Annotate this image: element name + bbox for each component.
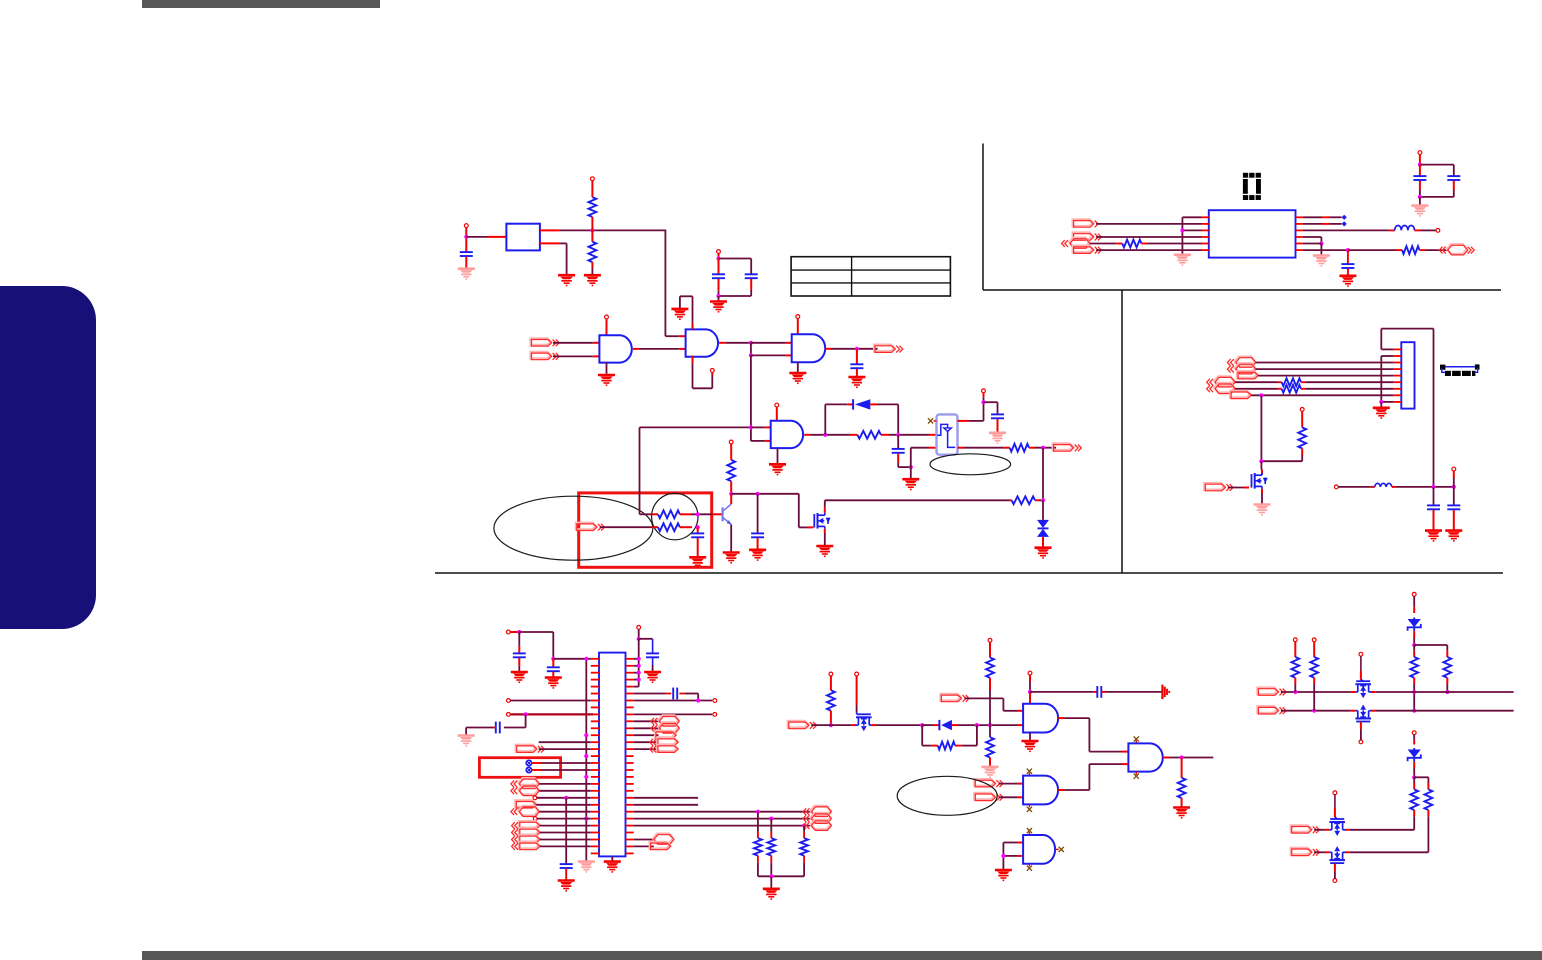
mosfet M7 (1325, 817, 1350, 836)
wire (1101, 691, 1161, 693)
ground (analog) (578, 862, 595, 872)
wire (770, 876, 772, 889)
wire (1334, 863, 1336, 878)
pin P3 (717, 250, 721, 254)
ellipse annotation (897, 776, 997, 815)
port OUT1 (874, 345, 903, 353)
wire (797, 362, 799, 373)
ground (545, 678, 562, 688)
wire (634, 818, 812, 820)
node junction (769, 874, 773, 878)
node junction (464, 235, 468, 239)
ground (763, 889, 780, 899)
ground (749, 550, 766, 560)
resistor R23 (1282, 378, 1301, 386)
port GRP1 tag (655, 731, 676, 739)
connector J1 pins (1393, 349, 1401, 402)
ground (1445, 531, 1462, 541)
node junction (637, 678, 641, 682)
wire (718, 279, 720, 296)
and-gate U4B (686, 329, 718, 356)
power rail wire (634, 639, 639, 687)
wire (983, 393, 985, 398)
wire (825, 404, 847, 434)
ground (644, 672, 661, 682)
ground rail (1182, 217, 1201, 255)
wire (665, 230, 685, 337)
no-connect X mark (1027, 864, 1032, 871)
tvs diode Z3 (1037, 500, 1049, 547)
port IN2 (531, 352, 560, 360)
wire (1035, 499, 1043, 501)
port hexpin (1207, 376, 1235, 387)
node junction (1041, 446, 1045, 450)
node junction (1379, 400, 1383, 404)
wire (1256, 362, 1394, 364)
node junction (749, 341, 753, 345)
wire (758, 875, 804, 877)
port GRP2 hexpin (803, 813, 831, 824)
pin P22 (1293, 638, 1297, 642)
capacitor C11 (639, 639, 659, 672)
node junction (769, 817, 773, 821)
wire (1029, 675, 1031, 692)
wire (591, 217, 593, 231)
capacitor C17 (1447, 487, 1460, 531)
ground (analog) (982, 767, 999, 777)
node junction (909, 465, 913, 469)
and-gate U7B (1128, 743, 1162, 771)
pin P16 (507, 699, 511, 703)
wire (999, 796, 1023, 798)
resistor R2 (589, 242, 597, 262)
port hexpin (1062, 238, 1090, 249)
node junction (829, 723, 833, 727)
ground (1035, 548, 1052, 558)
wire (1058, 764, 1128, 790)
wire (1419, 249, 1447, 251)
no-connect X mark (1055, 847, 1064, 852)
wire (1301, 388, 1393, 390)
port tag (516, 801, 537, 809)
resistor R20 (1310, 642, 1318, 711)
wire (1260, 461, 1263, 474)
ground (558, 275, 575, 285)
capacitor C8 (691, 527, 704, 557)
node junction (981, 400, 985, 404)
ground (558, 881, 575, 891)
wire (532, 769, 591, 771)
pin P11 (713, 699, 717, 703)
wire (952, 724, 1023, 726)
section border horizontal under middle blocks (435, 572, 1503, 574)
no-connect X mark (1134, 736, 1139, 743)
mosfet M3 (851, 712, 876, 731)
port tag (650, 842, 671, 850)
section border vertical left of top-right block (982, 144, 984, 291)
node junction (637, 664, 641, 668)
wire (640, 427, 653, 514)
transistor Q1 (723, 504, 732, 524)
pin P25 (1359, 740, 1363, 744)
IC U6 right pins (626, 659, 634, 854)
wire (1380, 402, 1382, 408)
node junction (896, 433, 900, 437)
port tag (512, 842, 540, 850)
wire (825, 500, 1009, 513)
node junction (1346, 248, 1350, 252)
wire (540, 832, 591, 834)
capacitor C19 (1413, 165, 1426, 180)
wire (519, 632, 553, 659)
wire (910, 467, 912, 479)
no-connect X mark (928, 418, 937, 423)
wire (537, 797, 591, 799)
pin P30 (open) (1334, 485, 1338, 489)
wire (1376, 710, 1514, 712)
port hexpin (511, 778, 539, 789)
node junction (637, 637, 641, 641)
bus wire long vertical (1433, 329, 1435, 487)
wire (536, 804, 590, 806)
pin P10 (637, 626, 641, 630)
wire (1350, 851, 1429, 853)
ground (848, 377, 865, 387)
wire (922, 724, 939, 726)
port IN10 (1258, 706, 1287, 714)
pin P7 (982, 389, 986, 393)
wire (1420, 165, 1454, 176)
resistor R15 (986, 737, 994, 757)
node junction (1312, 709, 1316, 713)
node junction (1412, 709, 1416, 713)
node junction (1418, 195, 1422, 199)
port IN16 (1073, 246, 1102, 254)
pin P13 (533, 796, 537, 800)
wire (876, 724, 922, 726)
wire (824, 529, 826, 546)
pin P29 (1300, 408, 1304, 412)
capacitor C2 (712, 274, 725, 278)
wire (532, 762, 591, 764)
pin P24 (1359, 652, 1363, 656)
port hexpin (511, 806, 539, 817)
resistor R25 (1298, 428, 1306, 449)
node junction (823, 433, 827, 437)
port IN3 (576, 523, 605, 531)
capacitor C5 (892, 435, 911, 467)
capacitor C20 (1447, 176, 1460, 197)
port tag (512, 828, 540, 836)
node junction (1001, 854, 1005, 858)
ground (710, 302, 727, 312)
ground (511, 672, 528, 682)
wire (881, 434, 937, 436)
ground (584, 275, 601, 285)
wire (600, 526, 658, 528)
ground (analog) (1254, 505, 1271, 515)
wire (1303, 249, 1348, 251)
capacitor C18 (1341, 250, 1354, 276)
ground (671, 309, 688, 319)
wire (1003, 842, 1023, 844)
wire (1453, 471, 1455, 487)
wire (652, 513, 658, 515)
capacitor C4 (850, 349, 863, 377)
wire (634, 811, 812, 813)
wire (1002, 843, 1004, 871)
node junction (1445, 690, 1449, 694)
zener Z1 (1408, 596, 1421, 645)
bus entry diamond (1342, 215, 1347, 220)
footer bar (142, 951, 1542, 960)
wire (1334, 795, 1336, 818)
wire (1003, 855, 1023, 857)
wire (540, 845, 591, 847)
jumper JP1 (526, 760, 532, 766)
resistor R17 (1443, 657, 1451, 678)
power rail wire (585, 659, 587, 862)
node junction (551, 657, 555, 661)
port GRP2 hexpin (803, 820, 831, 831)
node junction (1431, 485, 1435, 489)
ground (902, 479, 919, 489)
resistor R8 (1012, 496, 1036, 504)
wire (1392, 486, 1454, 488)
no-connect X mark (1027, 769, 1032, 776)
wire (539, 741, 591, 743)
wire (1090, 243, 1122, 245)
port IN15 (1073, 233, 1102, 241)
wire (680, 513, 723, 515)
ground (analog) (989, 433, 1006, 443)
pin P4 (605, 315, 609, 319)
mosfet M4 (1252, 473, 1268, 489)
pin P12 (713, 713, 717, 717)
wire (1029, 447, 1056, 449)
ground (analog) (1313, 256, 1330, 266)
connector J1 body (1401, 342, 1414, 408)
wire (638, 629, 640, 639)
node junction (1412, 643, 1416, 647)
wire (540, 243, 567, 275)
ellipse annotation (930, 454, 1011, 475)
port IN7 (975, 779, 1004, 787)
port IN13 (1205, 483, 1234, 491)
node junction (524, 712, 528, 716)
node junction (749, 353, 753, 357)
node junction (802, 824, 806, 828)
port IN6 (941, 694, 970, 702)
resistor R12 (827, 690, 835, 710)
wire (540, 825, 591, 827)
net wire (highlighted) (510, 713, 593, 715)
wire (1228, 487, 1249, 489)
node junction (584, 733, 588, 737)
wire (634, 700, 713, 702)
wire (751, 342, 792, 344)
pin P20 (1028, 671, 1032, 675)
wire (1414, 229, 1436, 231)
wire (634, 693, 672, 695)
resistor R21 (1425, 789, 1433, 810)
wire (1301, 381, 1393, 383)
node junction (1180, 755, 1184, 759)
wire (466, 728, 496, 736)
mosfet M8 (1325, 846, 1350, 863)
and-gate U5A (771, 421, 803, 448)
ground (analog) (458, 269, 475, 279)
pin P32 (open) (1436, 229, 1440, 233)
left navy tab (0, 286, 96, 629)
wire (1303, 229, 1395, 231)
port GRP2 hexpin (803, 806, 831, 817)
node junction (637, 671, 641, 675)
capacitor C6 (991, 414, 1004, 432)
wire (634, 797, 698, 799)
pin P31 (1452, 467, 1456, 471)
ground (769, 464, 786, 474)
ground (1339, 276, 1356, 286)
node junction (1259, 393, 1263, 397)
pin P6 (775, 403, 779, 407)
node junction (1412, 775, 1416, 779)
ground (689, 557, 706, 567)
port GRP1 tag (650, 745, 678, 753)
capacitor C14 (560, 864, 573, 880)
wire (719, 342, 751, 344)
wire (1303, 216, 1342, 218)
ground (1022, 741, 1039, 751)
wire (751, 440, 771, 442)
component (dashed outline) (1440, 364, 1480, 376)
wire (1419, 197, 1421, 206)
component box U2 (506, 224, 540, 251)
wire (1301, 411, 1303, 427)
wire (799, 494, 814, 528)
resistor R13 bypass (922, 725, 977, 749)
node junction (729, 492, 733, 496)
pin P23 (1312, 638, 1316, 642)
node junction (584, 817, 588, 821)
wire (510, 700, 591, 702)
wire (1096, 236, 1201, 238)
wire (811, 724, 851, 726)
node junction (1418, 163, 1422, 167)
IC U1 body (1209, 210, 1296, 257)
wire (1029, 692, 1031, 704)
port IN9 (1258, 688, 1287, 696)
capacitor C10 (547, 659, 560, 678)
wire (680, 526, 692, 528)
node junction (637, 657, 641, 661)
no-connect X mark (1134, 772, 1139, 779)
port hexpin (1227, 363, 1255, 374)
resistor R16 (1178, 758, 1186, 808)
wire (989, 678, 991, 737)
wire (634, 845, 654, 847)
port tag (1237, 371, 1258, 379)
port IN14 (1073, 220, 1098, 228)
wire (1256, 368, 1394, 370)
wire (1446, 678, 1448, 692)
wire (1029, 733, 1031, 742)
revision table (791, 257, 950, 296)
wire (911, 448, 937, 467)
wire (1260, 395, 1262, 461)
wire (553, 342, 599, 344)
wire (1251, 394, 1393, 396)
header bar (142, 0, 380, 8)
wire (540, 229, 666, 231)
resistor R10 (767, 819, 775, 877)
wire (640, 426, 751, 428)
wire (1376, 691, 1514, 693)
wire (591, 262, 593, 275)
diode D2 (939, 720, 952, 730)
wire (1235, 388, 1282, 390)
wire (537, 818, 591, 820)
wire (1096, 249, 1201, 251)
section border vertical divider right-middle block (1121, 290, 1123, 573)
wire (730, 525, 732, 553)
ground (analog) (1174, 255, 1191, 265)
wire (634, 804, 698, 806)
inductor L1 (1375, 483, 1392, 487)
ground (1425, 531, 1442, 541)
IC U1 right pins (1296, 217, 1303, 250)
wire (634, 839, 654, 841)
node junction (1180, 228, 1184, 232)
wire (1303, 223, 1342, 225)
port GRP1 tag (650, 738, 678, 746)
jumper JP2 (526, 767, 532, 773)
wire (1338, 486, 1375, 488)
pin P2 (591, 177, 595, 181)
ground (789, 373, 806, 383)
wire (1058, 718, 1128, 752)
capacitor C7 (751, 494, 764, 550)
pin P8 (729, 440, 733, 444)
port hexpin (653, 834, 674, 845)
wire (958, 447, 1010, 449)
node junction (1041, 498, 1045, 502)
wire (553, 355, 599, 357)
wire (804, 434, 849, 436)
wire (611, 856, 613, 861)
wire (591, 230, 593, 241)
port tag (1230, 391, 1251, 399)
wire (540, 839, 591, 841)
and-gate U4C (792, 334, 826, 362)
wire (539, 790, 591, 792)
port hexpin (1227, 357, 1255, 368)
port OUT2 (1053, 444, 1082, 452)
wire (830, 711, 832, 726)
wire (1261, 448, 1302, 461)
node junction (756, 492, 760, 496)
resistor R4 (1010, 444, 1029, 452)
wire (777, 448, 779, 464)
wire (856, 676, 858, 713)
wire (553, 658, 591, 660)
port hexpin (511, 785, 539, 796)
port tag (512, 821, 540, 829)
wire (776, 407, 778, 421)
wire (465, 227, 467, 237)
resistor R9 (754, 812, 762, 877)
pin P14 (533, 817, 537, 821)
